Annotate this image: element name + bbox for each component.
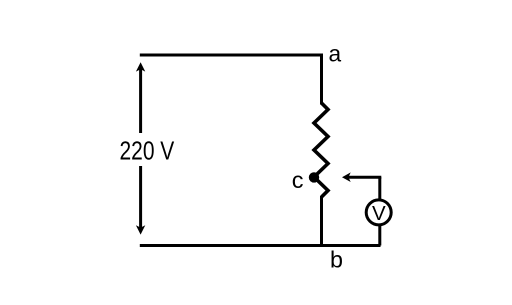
- svg-text:c: c: [292, 167, 304, 193]
- wire voltmeter vertical upper: [378, 177, 381, 200]
- 220 V source double-headed arrow shaft upper: [139, 69, 142, 133]
- 220 V source double-headed arrow shaft lower: [139, 166, 142, 228]
- svg-text:V: V: [372, 202, 386, 225]
- resistor R (zigzag): [314, 103, 328, 197]
- wire right vertical from a to resistor: [320, 54, 323, 105]
- voltmeter V: [366, 200, 391, 225]
- svg-text:a: a: [328, 41, 341, 67]
- arrowhead up: [136, 62, 145, 71]
- wire voltmeter horizontal: [349, 176, 382, 179]
- svg-text:220 V: 220 V: [120, 136, 175, 166]
- wire top horizontal a-side: [140, 54, 322, 57]
- arrowhead down: [136, 225, 145, 234]
- svg-text:b: b: [330, 247, 343, 273]
- wire bottom horizontal b-side: [140, 244, 381, 247]
- wire right vertical from resistor to bottom: [320, 196, 323, 247]
- voltmeter probe arrow pointing to c: [342, 172, 351, 182]
- node c junction dot: [309, 172, 319, 182]
- wire voltmeter vertical lower: [378, 226, 381, 246]
